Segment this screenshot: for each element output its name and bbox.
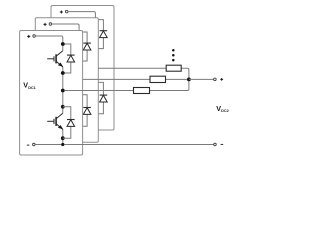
svg-text:DC2: DC2 — [221, 109, 229, 113]
svg-text:DC1: DC1 — [28, 86, 36, 90]
